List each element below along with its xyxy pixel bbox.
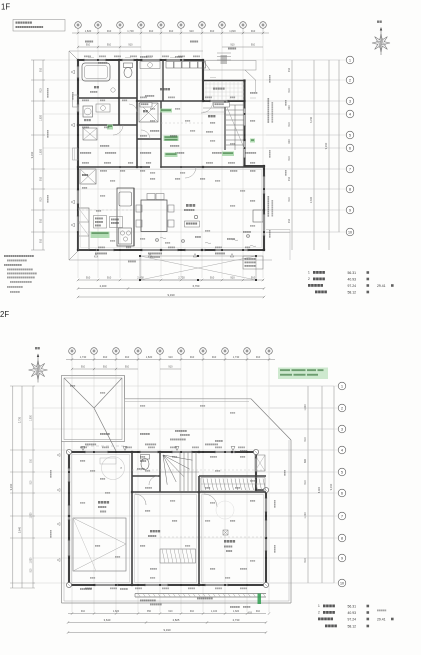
svg-text:910: 910 xyxy=(31,568,33,573)
svg-text:910: 910 xyxy=(230,276,235,280)
svg-text:9,190: 9,190 xyxy=(30,151,34,158)
svg-text:1,730: 1,730 xyxy=(127,29,134,33)
svg-text:910: 910 xyxy=(210,276,215,280)
svg-text:1,820: 1,820 xyxy=(233,610,240,613)
svg-text:910: 910 xyxy=(230,44,235,47)
svg-text:910: 910 xyxy=(31,480,33,485)
svg-text:910: 910 xyxy=(40,67,43,72)
svg-text:2: 2 xyxy=(341,406,343,410)
svg-text:97.24: 97.24 xyxy=(348,284,357,288)
svg-text:7: 7 xyxy=(341,514,343,518)
svg-text:620: 620 xyxy=(288,139,291,144)
svg-text:910: 910 xyxy=(189,29,194,33)
svg-text:2: 2 xyxy=(318,611,320,615)
svg-text:3,640: 3,640 xyxy=(19,526,22,533)
svg-text:1,730: 1,730 xyxy=(80,355,87,359)
svg-text:2,730: 2,730 xyxy=(178,276,185,280)
svg-text:910: 910 xyxy=(86,44,91,47)
svg-text:9,190: 9,190 xyxy=(329,483,333,490)
svg-text:9,190: 9,190 xyxy=(168,293,175,297)
svg-text:1,820: 1,820 xyxy=(40,148,43,155)
svg-text:58.12: 58.12 xyxy=(348,290,357,294)
svg-text:910: 910 xyxy=(256,355,261,359)
svg-text:1,820: 1,820 xyxy=(146,355,153,359)
svg-text:10: 10 xyxy=(348,230,352,234)
svg-text:910: 910 xyxy=(128,44,133,47)
svg-text:2: 2 xyxy=(349,78,351,82)
svg-text:910: 910 xyxy=(107,44,112,47)
svg-text:1,820: 1,820 xyxy=(31,512,33,518)
svg-text:7: 7 xyxy=(349,167,351,171)
svg-text:910: 910 xyxy=(107,29,112,33)
svg-text:×: × xyxy=(120,465,123,470)
svg-text:29.41: 29.41 xyxy=(377,284,386,288)
svg-text:910: 910 xyxy=(288,176,291,181)
svg-text:9: 9 xyxy=(341,556,343,560)
svg-text:2,730: 2,730 xyxy=(19,416,22,423)
svg-text:40.93: 40.93 xyxy=(348,611,357,615)
svg-text:910: 910 xyxy=(103,355,108,359)
svg-text:910: 910 xyxy=(288,88,291,93)
svg-text:910: 910 xyxy=(86,276,91,280)
svg-text:10: 10 xyxy=(340,581,344,585)
svg-text:1,100: 1,100 xyxy=(211,610,218,613)
svg-text:880: 880 xyxy=(304,458,307,463)
svg-text:1: 1 xyxy=(308,271,310,275)
svg-text:3: 3 xyxy=(349,99,351,103)
svg-text:3,640: 3,640 xyxy=(104,618,111,622)
svg-text:8: 8 xyxy=(341,536,343,540)
svg-text:29.41: 29.41 xyxy=(377,617,386,621)
svg-text:910: 910 xyxy=(40,238,43,243)
svg-text:5: 5 xyxy=(341,470,343,474)
svg-text:2: 2 xyxy=(308,277,310,281)
svg-text:910: 910 xyxy=(40,176,43,181)
svg-text:910: 910 xyxy=(40,218,43,223)
svg-text:910: 910 xyxy=(251,29,256,33)
svg-text:5: 5 xyxy=(349,133,351,137)
svg-text:3: 3 xyxy=(341,427,343,431)
svg-text:910: 910 xyxy=(304,437,307,442)
svg-text:1,820: 1,820 xyxy=(113,610,120,613)
svg-text:910: 910 xyxy=(40,197,43,202)
svg-text:6,760: 6,760 xyxy=(193,284,200,288)
svg-text:910: 910 xyxy=(81,366,86,369)
svg-text:910: 910 xyxy=(304,558,307,563)
svg-text:1: 1 xyxy=(341,384,343,388)
svg-text:910: 910 xyxy=(31,458,33,463)
svg-text:2,825: 2,825 xyxy=(173,618,180,622)
svg-text:910: 910 xyxy=(168,355,173,359)
svg-text:58.12: 58.12 xyxy=(348,624,357,628)
svg-text:4: 4 xyxy=(341,448,343,452)
svg-text:910: 910 xyxy=(288,122,291,127)
svg-text:1,820: 1,820 xyxy=(31,557,33,563)
svg-text:2,730: 2,730 xyxy=(233,618,240,622)
svg-text:910: 910 xyxy=(103,366,108,369)
svg-text:8: 8 xyxy=(349,187,351,191)
svg-text:910: 910 xyxy=(149,29,154,33)
svg-text:910: 910 xyxy=(288,156,291,161)
svg-text:910: 910 xyxy=(251,44,256,47)
svg-text:350: 350 xyxy=(147,610,152,613)
svg-text:1,730: 1,730 xyxy=(233,355,240,359)
svg-text:6: 6 xyxy=(349,146,351,150)
svg-text:4: 4 xyxy=(349,112,351,116)
svg-text:56.31: 56.31 xyxy=(348,271,357,275)
svg-text:3,150: 3,150 xyxy=(310,116,313,123)
svg-text:910: 910 xyxy=(169,29,174,33)
svg-text:8,400: 8,400 xyxy=(318,486,321,493)
svg-text:97.24: 97.24 xyxy=(348,617,357,621)
svg-text:610: 610 xyxy=(168,610,173,613)
svg-text:2,340: 2,340 xyxy=(310,196,313,203)
svg-text:910: 910 xyxy=(190,355,195,359)
svg-text:910: 910 xyxy=(304,480,307,485)
svg-text:6: 6 xyxy=(341,491,343,495)
svg-text:9,190: 9,190 xyxy=(9,483,13,490)
svg-text:56.31: 56.31 xyxy=(348,604,357,608)
svg-text:1,820: 1,820 xyxy=(31,414,33,420)
svg-text:1: 1 xyxy=(318,604,320,608)
svg-text:9,190: 9,190 xyxy=(164,628,171,632)
svg-text:1,420: 1,420 xyxy=(304,512,307,519)
svg-text:40.93: 40.93 xyxy=(348,277,357,281)
svg-text:1: 1 xyxy=(349,58,351,62)
svg-text:910: 910 xyxy=(288,218,291,223)
svg-text:910: 910 xyxy=(168,366,173,369)
svg-text:1,820: 1,820 xyxy=(304,404,307,411)
svg-text:910: 910 xyxy=(107,276,112,280)
svg-text:2F: 2F xyxy=(0,310,9,319)
svg-text:910: 910 xyxy=(190,610,195,613)
svg-text:9: 9 xyxy=(349,208,351,212)
svg-text:1,820: 1,820 xyxy=(40,114,43,121)
svg-text:910: 910 xyxy=(288,197,291,202)
svg-text:910: 910 xyxy=(288,67,291,72)
svg-text:910: 910 xyxy=(81,610,86,613)
svg-text:910: 910 xyxy=(210,29,215,33)
svg-text:910: 910 xyxy=(256,610,261,613)
svg-text:9,190: 9,190 xyxy=(324,142,328,149)
svg-text:2,460: 2,460 xyxy=(100,284,107,288)
svg-text:910: 910 xyxy=(125,355,130,359)
svg-text:1,820: 1,820 xyxy=(85,29,92,33)
svg-text:1F: 1F xyxy=(1,3,10,12)
svg-text:910: 910 xyxy=(40,88,43,93)
svg-text:620: 620 xyxy=(288,105,291,110)
svg-text:1,820: 1,820 xyxy=(229,29,236,33)
svg-text:910: 910 xyxy=(125,366,130,369)
svg-text:910: 910 xyxy=(212,355,217,359)
